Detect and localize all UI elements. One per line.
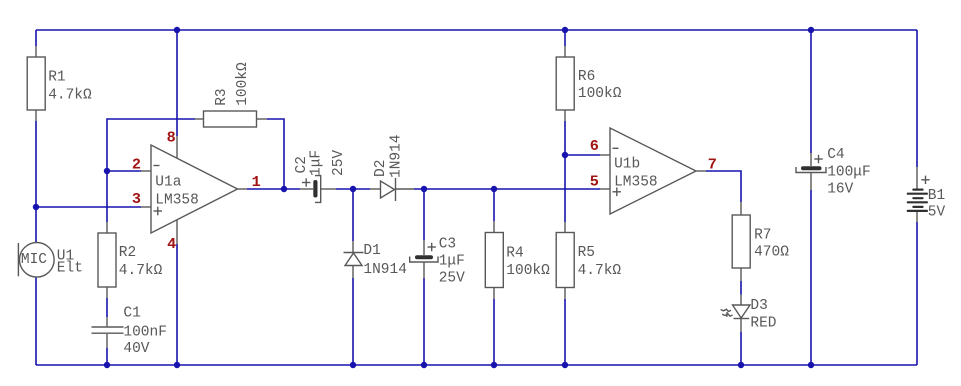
svg-text:U1b: U1b (614, 157, 640, 173)
svg-text:1N914: 1N914 (389, 134, 405, 178)
node R4 bottom rail (491, 362, 497, 368)
svg-text:4.7kΩ: 4.7kΩ (578, 263, 622, 279)
wire D2 to pin5 (414, 188, 600, 190)
svg-text:Elt: Elt (57, 260, 83, 276)
wire D3 to bottom (740, 332, 742, 365)
svg-text:R5: R5 (578, 245, 595, 261)
node R5 bottom rail (562, 362, 568, 368)
svg-text:LM358: LM358 (614, 174, 658, 190)
svg-text:C4: C4 (827, 147, 844, 163)
node R6 R5 pin6 (562, 152, 568, 158)
wire C3 column upper (423, 189, 425, 240)
capacitor C2 (294, 150, 347, 203)
svg-text:R7: R7 (754, 227, 771, 243)
node R4 top (491, 186, 497, 192)
wire D1 column upper (352, 189, 354, 241)
wire C4 column lower (810, 190, 812, 365)
svg-text:MIC: MIC (21, 252, 47, 268)
wire left column R1 to mic (35, 121, 37, 243)
wire R4 column lower (493, 299, 495, 365)
wire left column upper (35, 30, 37, 46)
node R1 mic pin3 (33, 204, 39, 210)
resistor R3 (195, 62, 267, 127)
capacitor C1 (92, 306, 167, 358)
svg-text:100μF: 100μF (827, 165, 871, 181)
svg-text:R6: R6 (578, 69, 595, 85)
svg-text:R4: R4 (506, 245, 523, 261)
wire right column upper (916, 30, 918, 167)
wire pin2 input (107, 170, 141, 172)
wire pin4 (176, 244, 178, 365)
resistor R6 (556, 46, 622, 121)
node C4 bottom rail (808, 362, 814, 368)
wire left column mic to bottom (35, 277, 37, 365)
node output feedback (281, 186, 287, 192)
svg-text:100kΩ: 100kΩ (506, 263, 550, 279)
wire pin8 (176, 30, 178, 136)
wire R2 column (106, 171, 108, 222)
wire C3 column lower (423, 278, 425, 365)
op-amp U1a (132, 129, 261, 253)
svg-text:1μF: 1μF (439, 253, 465, 269)
svg-text:U1a: U1a (155, 175, 181, 191)
svg-text:C1: C1 (123, 306, 140, 322)
resistor R2 (98, 222, 163, 298)
node D3 bottom rail (738, 362, 744, 368)
wire R6 to R5 (564, 121, 566, 222)
svg-text:3: 3 (132, 190, 141, 208)
resistor R7 (732, 202, 789, 281)
wire output to C2 (247, 188, 300, 190)
wire pin3 input (36, 206, 141, 208)
node D2 C3 (421, 186, 427, 192)
svg-text:100nF: 100nF (123, 324, 167, 340)
svg-text:D3: D3 (750, 298, 767, 314)
svg-text:2: 2 (132, 155, 141, 173)
svg-text:4.7kΩ: 4.7kΩ (48, 87, 92, 103)
svg-text:5V: 5V (928, 205, 946, 221)
resistor R5 (556, 222, 621, 299)
wire R4 column upper (493, 189, 495, 221)
svg-text:4.7kΩ: 4.7kΩ (119, 263, 163, 279)
battery B1 (907, 167, 946, 222)
svg-text:R2: R2 (119, 245, 136, 261)
svg-text:D1: D1 (363, 243, 380, 259)
node pin4 bottom rail (174, 362, 180, 368)
microphone U1 (18, 242, 83, 277)
wire right column lower (916, 222, 918, 365)
op-amp U1b (590, 128, 717, 214)
node D1 bottom rail (350, 362, 356, 368)
wire C2 to D2 (336, 188, 370, 190)
wire C1 to bottom (106, 348, 108, 365)
LED D3 (721, 295, 777, 333)
svg-text:5: 5 (590, 172, 599, 190)
svg-text:8: 8 (167, 129, 176, 147)
resistor R1 (27, 46, 92, 121)
svg-text:4: 4 (167, 235, 176, 253)
node R6 top rail (562, 27, 568, 33)
svg-text:7: 7 (708, 156, 717, 174)
svg-text:40V: 40V (123, 341, 149, 357)
node C4 top rail (808, 27, 814, 33)
capacitor C3 (410, 236, 465, 286)
capacitor C4 (796, 147, 871, 197)
wire C4 column upper (810, 30, 812, 153)
wire feedback up and to R3 (107, 119, 195, 171)
svg-text:25V: 25V (331, 150, 347, 176)
node pin8 top rail (174, 27, 180, 33)
wire R7 to D3 (740, 281, 742, 295)
svg-text:100kΩ: 100kΩ (578, 86, 622, 102)
svg-text:16V: 16V (827, 181, 853, 197)
svg-text:1: 1 (252, 173, 261, 191)
node C2 D1 (350, 186, 356, 192)
resistor R4 (485, 221, 550, 299)
diode D2 (370, 134, 414, 201)
svg-text:R3: R3 (214, 88, 230, 105)
wire R5 column lower (564, 299, 566, 365)
diode D1 (344, 241, 407, 278)
node pin2 feedback (104, 168, 110, 174)
svg-text:1N914: 1N914 (363, 262, 407, 278)
wire R3 right to output (267, 119, 284, 189)
wire R2 to C1 (106, 298, 108, 317)
wire D1 column lower (352, 278, 354, 365)
svg-text:D2: D2 (373, 160, 389, 177)
wire bottom rail (36, 364, 917, 366)
node C3 bottom rail (421, 362, 427, 368)
svg-text:R1: R1 (48, 69, 65, 85)
wire pin6 input (565, 154, 600, 156)
svg-text:100kΩ: 100kΩ (235, 62, 251, 106)
svg-text:RED: RED (750, 316, 776, 332)
svg-text:25V: 25V (439, 271, 465, 287)
svg-text:LM358: LM358 (155, 192, 199, 208)
node C1 bottom rail (104, 362, 110, 368)
wire pin7 output to R7 (706, 171, 741, 202)
svg-text:6: 6 (590, 137, 599, 155)
svg-text:B1: B1 (928, 188, 945, 204)
svg-text:C3: C3 (439, 236, 456, 252)
wire R6 column upper (564, 30, 566, 46)
svg-text:470Ω: 470Ω (754, 245, 789, 261)
wire top rail (36, 29, 917, 31)
svg-text:1μF: 1μF (309, 150, 325, 176)
